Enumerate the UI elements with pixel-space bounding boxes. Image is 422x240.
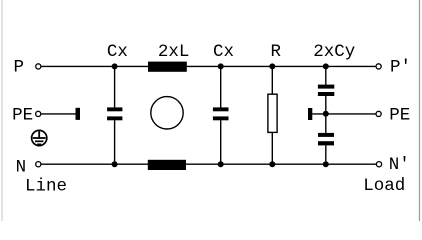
svg-text:2xCy: 2xCy [313, 42, 355, 62]
junction N-Cx1 [112, 161, 118, 167]
terminal N' [376, 162, 381, 167]
wire PE left stub [41, 113, 76, 115]
junction N-Cx2 [218, 161, 224, 167]
svg-text:N': N' [389, 155, 410, 175]
svg-text:Cx: Cx [107, 42, 128, 62]
junction N-R [269, 161, 275, 167]
svg-text:P: P [13, 58, 24, 78]
svg-text:PE: PE [12, 105, 33, 125]
wire PE right stub [312, 113, 376, 115]
terminal P' [376, 64, 381, 69]
svg-text:R: R [271, 42, 282, 62]
chassis bar left PE [76, 108, 81, 120]
ground symbol [32, 130, 47, 145]
chassis bar right Cy midpoint [308, 108, 312, 120]
capacitor Cx C2 [213, 66, 229, 164]
svg-text:PE: PE [389, 105, 410, 125]
junction N-Cy [323, 161, 329, 167]
junction Cy midpoint PE [323, 111, 329, 117]
terminal N [36, 162, 41, 167]
inductor core circle [151, 97, 183, 129]
svg-text:2xL: 2xL [158, 42, 190, 62]
terminal PE left [36, 111, 41, 116]
junction P-Cy [323, 63, 329, 69]
page edge line left [1, 0, 3, 221]
capacitor Cx C1 [107, 66, 122, 164]
inductor 2xL winding top [148, 62, 187, 72]
junction P-Cx2 [218, 63, 224, 69]
svg-text:Load: Load [363, 176, 405, 196]
svg-text:Line: Line [25, 177, 67, 197]
svg-text:N: N [16, 157, 27, 177]
capacitor Cy bottom [318, 133, 334, 164]
capacitor Cy top [318, 66, 334, 133]
terminal P [36, 64, 41, 69]
inductor 2xL winding bottom [148, 160, 186, 170]
wire N rail [41, 163, 377, 165]
junction P-Cx1 [112, 63, 118, 69]
svg-text:P': P' [390, 58, 411, 78]
resistor R [268, 66, 277, 164]
page edge line right [419, 0, 421, 221]
terminal PE right [376, 111, 381, 116]
wire P rail [41, 65, 376, 67]
junction P-R [269, 63, 275, 69]
svg-text:Cx: Cx [213, 42, 234, 62]
